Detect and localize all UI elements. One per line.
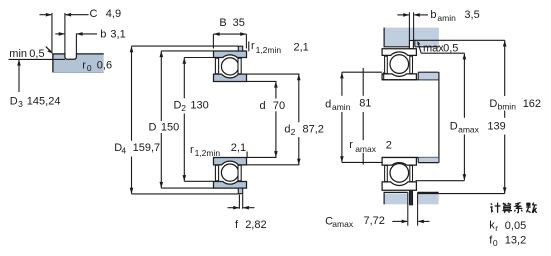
Dbmin extension line (bottom) bbox=[418, 193, 505, 195]
upper right bearing inner ring bbox=[382, 74, 416, 80]
lower right bearing inner ring bbox=[382, 158, 416, 166]
shaft shoulder bottom line (damin ext, lower) bbox=[342, 161, 382, 163]
dimension B 35 bbox=[213, 17, 246, 49]
text d 70 bbox=[258, 99, 286, 112]
text Damax 139 bbox=[448, 118, 507, 135]
svg-text:2: 2 bbox=[386, 139, 392, 151]
Camax groove wall extension lines bbox=[407, 192, 409, 225]
lower right bearing shields bbox=[385, 166, 388, 182]
dimension line D bbox=[160, 51, 164, 188]
snap ring groove slot (r0 groove) bbox=[65, 53, 77, 59]
text d2 87,2 bbox=[283, 122, 325, 137]
svg-text:r: r bbox=[251, 40, 255, 52]
lower right bearing ball bbox=[390, 164, 409, 183]
svg-text:min0,5: min0,5 bbox=[9, 48, 44, 60]
svg-text:D4159,7: D4159,7 bbox=[114, 142, 160, 156]
dimension line d bbox=[274, 81, 278, 157]
d extension line (bottom) bbox=[247, 156, 277, 158]
label r1,2min 2,1 (upper) with leader bbox=[249, 40, 309, 55]
extension line C (groove right wall) bbox=[75, 33, 77, 53]
计 bbox=[490, 203, 500, 213]
Dbmin extension line (top, from snap ring) bbox=[414, 39, 505, 41]
extension line A (ring side face) bbox=[51, 13, 53, 54]
svg-text:max0,5: max0,5 bbox=[423, 42, 458, 54]
svg-text:1,2min: 1,2min bbox=[256, 45, 282, 55]
shaft shoulder top line (damin ext, upper) bbox=[342, 71, 382, 73]
text D2 130 bbox=[172, 98, 211, 113]
系 bbox=[514, 203, 522, 213]
D extension line (outer dia, top) bbox=[161, 50, 213, 52]
svg-text:b3,1: b3,1 bbox=[100, 29, 125, 41]
shaft end line bbox=[438, 72, 440, 163]
dimension line D2 bbox=[183, 58, 187, 182]
D4 extension line (bottom) bbox=[132, 193, 239, 195]
lower snap ring bbox=[238, 188, 242, 194]
upper snap ring bbox=[238, 46, 242, 51]
dimension line D4 bbox=[130, 46, 134, 194]
lower bearing right shield bbox=[238, 165, 241, 181]
dimension Camax 7,72 bbox=[325, 215, 429, 229]
upper right bearing outer ring bbox=[382, 49, 416, 56]
lower snap ring (in housing groove) bbox=[410, 190, 413, 205]
svg-text:B35: B35 bbox=[219, 17, 244, 29]
svg-text:D150: D150 bbox=[149, 122, 180, 134]
housing snap ring groove notch bbox=[409, 40, 415, 48]
text Dbmin 162 bbox=[488, 96, 542, 111]
svg-text:1,2min: 1,2min bbox=[195, 148, 221, 158]
shaft cut end line bbox=[362, 68, 364, 165]
dimension Damax 139 bbox=[463, 53, 467, 180]
shaft shoulder face (lower) bbox=[383, 158, 385, 163]
D extension line (bottom) bbox=[161, 187, 213, 189]
svg-text:d287,2: d287,2 bbox=[284, 124, 324, 137]
Damax extension line (bottom) bbox=[416, 180, 465, 182]
text D4 159,7 bbox=[113, 141, 161, 157]
upper bearing outer ring bbox=[214, 51, 247, 58]
label r1,2min 2,1 (lower) with leader bbox=[190, 142, 247, 158]
upper abutment collar bbox=[418, 72, 438, 80]
text damin 81 bbox=[324, 96, 371, 112]
dimension damin 81 bbox=[340, 72, 344, 162]
ring segment block bbox=[52, 53, 103, 72]
label r0 0,6 (groove radius) bbox=[82, 59, 112, 73]
upper right bearing ball bbox=[390, 55, 409, 74]
d extension line (top) bbox=[247, 80, 277, 82]
lower bearing left shield bbox=[215, 165, 218, 181]
lower abutment collar bbox=[418, 158, 438, 163]
d2 extension line (top) bbox=[247, 73, 300, 75]
svg-text:2,1: 2,1 bbox=[294, 42, 309, 54]
svg-text:D3145,24: D3145,24 bbox=[10, 95, 61, 109]
lower bearing inner ring bbox=[214, 158, 247, 165]
label max 0,5 with leader bbox=[417, 41, 464, 55]
dimension bamin 3,5 bbox=[397, 9, 479, 23]
D4 extension line (snap ring OD, top) bbox=[132, 45, 239, 47]
算 bbox=[502, 203, 512, 213]
shaft seat line (upper bore) bbox=[382, 79, 438, 81]
svg-text:2,1: 2,1 bbox=[231, 142, 246, 154]
shaft shoulder face (upper) bbox=[383, 72, 385, 80]
upper bearing left shield bbox=[215, 58, 218, 74]
dimension line d2 bbox=[297, 74, 301, 165]
dimension f 2,82 bbox=[228, 206, 267, 231]
shaft seat line (lower bore) bbox=[382, 157, 438, 159]
upper bearing inner ring bbox=[214, 74, 247, 81]
f extension lines (snap ring groove) bbox=[238, 195, 240, 209]
svg-text:D2130: D2130 bbox=[174, 100, 209, 113]
dimension Dbmin 162 bbox=[503, 40, 507, 193]
lower bearing ball bbox=[221, 164, 238, 181]
svg-text:d70: d70 bbox=[260, 100, 286, 112]
dimension b 3,1 bbox=[55, 29, 125, 41]
D2 extension line (shoulder dia, top) bbox=[184, 57, 213, 59]
extension line B (groove left wall) bbox=[64, 13, 66, 53]
upper bearing right shield bbox=[238, 58, 241, 74]
upper right bearing shields bbox=[385, 56, 388, 73]
upper housing block bbox=[384, 28, 439, 47]
lower right bearing outer ring bbox=[382, 182, 416, 190]
label min 0,5 with leader bbox=[9, 47, 52, 61]
D3 groove diameter level line bbox=[9, 58, 65, 60]
dimension C 4,9 bbox=[40, 8, 122, 20]
lower housing block bbox=[384, 192, 439, 204]
text D 150 bbox=[147, 121, 183, 134]
Chinese label 计算系数 (calculation factors) bbox=[490, 203, 537, 213]
upper bearing ball bbox=[221, 58, 238, 75]
svg-text:r: r bbox=[190, 144, 194, 156]
dimension D3 145,24 bbox=[10, 59, 61, 109]
upper snap ring (in housing groove) bbox=[409, 41, 413, 49]
D2 extension line (bottom) bbox=[184, 180, 213, 182]
svg-text:C4,9: C4,9 bbox=[90, 8, 122, 20]
lower bearing outer ring bbox=[214, 182, 247, 189]
数 bbox=[526, 203, 537, 213]
text ramax 2 bbox=[348, 139, 392, 154]
bamin extension lines bbox=[408, 12, 410, 40]
d2 extension line (bottom) bbox=[247, 164, 300, 166]
